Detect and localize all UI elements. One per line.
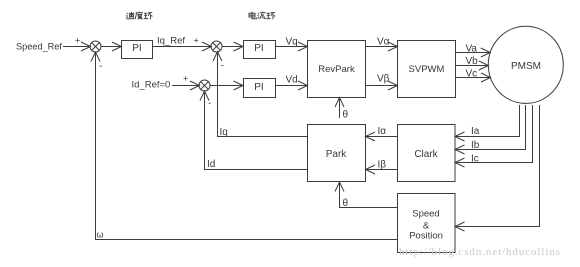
svg-text:Position: Position	[409, 231, 443, 242]
svg-text:Iβ: Iβ	[378, 159, 387, 170]
svg-text:http://blog.csdn.net/hducollin: http://blog.csdn.net/hducollins	[399, 246, 560, 258]
wire Clark to Park Ialpha	[366, 136, 398, 138]
svg-text:Ic: Ic	[471, 154, 479, 165]
label speed-loop (速度环)	[126, 12, 152, 20]
svg-text:Ib: Ib	[471, 140, 480, 151]
wire RevPark to SVPWM bottom	[366, 85, 398, 87]
svg-text:-: -	[99, 61, 102, 72]
svg-text:θ: θ	[343, 198, 349, 209]
svg-text:Vβ: Vβ	[377, 74, 390, 85]
svg-text:Speed_Ref: Speed_Ref	[16, 42, 62, 52]
wire PMSM position drop to Speed&Position	[456, 105, 540, 227]
svg-text:Vα: Vα	[377, 37, 390, 48]
svg-text:Vd: Vd	[286, 75, 298, 86]
wire PMSM sense drop Ia	[456, 105, 520, 137]
svg-text:Iα: Iα	[378, 126, 387, 137]
block Clark	[398, 125, 456, 182]
block SVPWM	[398, 41, 456, 98]
svg-text:PI: PI	[254, 82, 263, 93]
wire RevPark to SVPWM top	[365, 46, 397, 48]
svg-text:SVPWM: SVPWM	[409, 64, 445, 75]
summing junction S3	[199, 80, 210, 91]
wire Id_Ref to S3	[172, 85, 199, 87]
wire SVPWM to PMSM phase a	[456, 52, 490, 54]
svg-text:Speed: Speed	[412, 209, 439, 220]
svg-text:Id_Ref=0: Id_Ref=0	[132, 80, 171, 91]
block Speed & Position	[398, 194, 456, 253]
wire PI1 to S2	[153, 46, 212, 48]
svg-text:Ia: Ia	[471, 126, 480, 137]
wire S3 to PI3	[210, 85, 243, 87]
wire PMSM sense drop Ib	[456, 105, 526, 150]
svg-text:Id: Id	[207, 159, 215, 170]
svg-text:PMSM: PMSM	[511, 61, 541, 72]
svg-text:-: -	[208, 98, 211, 109]
svg-text:θ: θ	[343, 110, 349, 121]
svg-text:Iq_Ref: Iq_Ref	[157, 36, 185, 47]
wire theta stub into RevPark	[339, 98, 341, 118]
summing junction S1	[90, 41, 101, 52]
block Park	[308, 125, 366, 182]
svg-text:ω: ω	[97, 230, 104, 240]
wire Speed_Ref to S1	[63, 46, 90, 48]
wire Iq feedback Park to S2	[218, 52, 308, 136]
wire PMSM sense drop Ic	[456, 105, 533, 163]
wire theta into Park from Speed&Position	[340, 183, 398, 208]
wire PI3 to RevPark	[276, 85, 308, 87]
svg-text:PI: PI	[254, 43, 263, 54]
wire SVPWM to PMSM phase c	[456, 77, 491, 79]
svg-text:Park: Park	[326, 149, 348, 160]
wire Clark to Park Ibeta	[366, 169, 398, 171]
svg-text:RevPark: RevPark	[318, 64, 355, 75]
wire Id feedback Park to S3	[205, 92, 308, 170]
svg-text:PI: PI	[132, 43, 141, 54]
wire S1 to PI1	[101, 46, 121, 48]
svg-text:-: -	[221, 61, 224, 72]
wire S2 to PI2	[222, 46, 243, 48]
block PI2	[244, 41, 276, 59]
summing junction S2	[211, 41, 222, 52]
motor PMSM	[488, 26, 563, 103]
label current-loop (电流环)	[249, 12, 275, 20]
wire SVPWM to PMSM phase b	[456, 65, 488, 67]
svg-text:Vq: Vq	[286, 37, 298, 48]
svg-text:+: +	[75, 36, 80, 46]
svg-text:+: +	[183, 74, 188, 84]
wire PI2 to RevPark	[276, 46, 307, 48]
svg-text:Clark: Clark	[414, 149, 438, 160]
block PI3	[244, 79, 276, 98]
wire omega feedback Speed&Position to S1	[96, 53, 398, 240]
svg-text:+: +	[194, 36, 199, 46]
block PI1	[122, 41, 153, 59]
block RevPark	[308, 41, 366, 98]
